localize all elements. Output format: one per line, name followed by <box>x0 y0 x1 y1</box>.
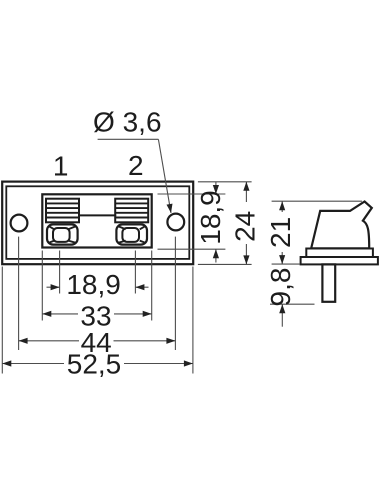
dim 18,9 right: extension lines <box>158 194 226 249</box>
dim 44: dimension lines and arrows <box>19 340 176 342</box>
terminal clamp 2 outer <box>116 224 147 244</box>
side view: lower base plate <box>301 257 378 264</box>
front view: outer housing rect <box>2 182 193 265</box>
dim 33: extension lines <box>42 251 151 321</box>
svg-text:Ø 3,6: Ø 3,6 <box>93 107 161 138</box>
svg-text:18,9: 18,9 <box>66 269 121 300</box>
mounting hole right <box>167 214 184 231</box>
terminal clamp 2 corner bevels <box>118 226 145 243</box>
svg-text:1: 1 <box>53 151 69 182</box>
fuse clip 1 ladder rungs <box>46 203 79 217</box>
dim 21: dimension lines and arrows <box>281 201 283 264</box>
dim 24: dimension lines and arrows <box>245 182 247 265</box>
fuse clip 2 ladder outline <box>115 199 148 223</box>
dim 18,9 bottom: dimension lines and arrows <box>47 286 149 288</box>
svg-text:21: 21 <box>265 217 296 248</box>
terminal clamp 1 corner bevels <box>49 226 76 243</box>
fuse clip 1 ladder outline <box>46 199 79 223</box>
dim 18,9 bottom: extension lines <box>60 251 136 294</box>
dim 9,8: extension line bottom <box>270 303 315 305</box>
svg-text:24: 24 <box>229 211 260 242</box>
leader arrowhead <box>167 204 173 213</box>
dim 52,5: extension lines <box>2 267 193 374</box>
terminal clamp 2 inner <box>122 228 139 242</box>
dim 33: dimension lines and arrows <box>42 313 151 315</box>
dim 21: extension lines <box>272 201 362 264</box>
front view: centre window bottom line <box>79 214 117 216</box>
front view: central recess rect <box>42 194 151 247</box>
dim 52,5: dimension lines and arrows <box>2 363 193 365</box>
side view: terminal stem <box>322 264 335 301</box>
terminal clamp 1 outer <box>47 224 78 244</box>
side view: upper base step <box>306 249 373 258</box>
fuse clip 2 ladder rungs <box>115 203 148 217</box>
terminal clamp 1 inner <box>53 228 70 242</box>
front view: inner housing rect <box>6 186 189 259</box>
dim 24: extension lines <box>198 182 252 265</box>
dim 44: extension lines <box>19 237 176 350</box>
svg-text:2: 2 <box>128 150 144 181</box>
svg-text:9,8: 9,8 <box>265 268 296 307</box>
side view: body outline with lever tab <box>311 202 372 249</box>
svg-text:52,5: 52,5 <box>67 349 122 380</box>
dim 9,8: arrow and tail <box>281 304 283 327</box>
dim 18,9 right: dimension lines and arrows <box>215 182 217 263</box>
svg-text:18,9: 18,9 <box>195 190 226 245</box>
mounting hole left <box>11 215 28 232</box>
leader line for hole diameter <box>98 139 171 213</box>
